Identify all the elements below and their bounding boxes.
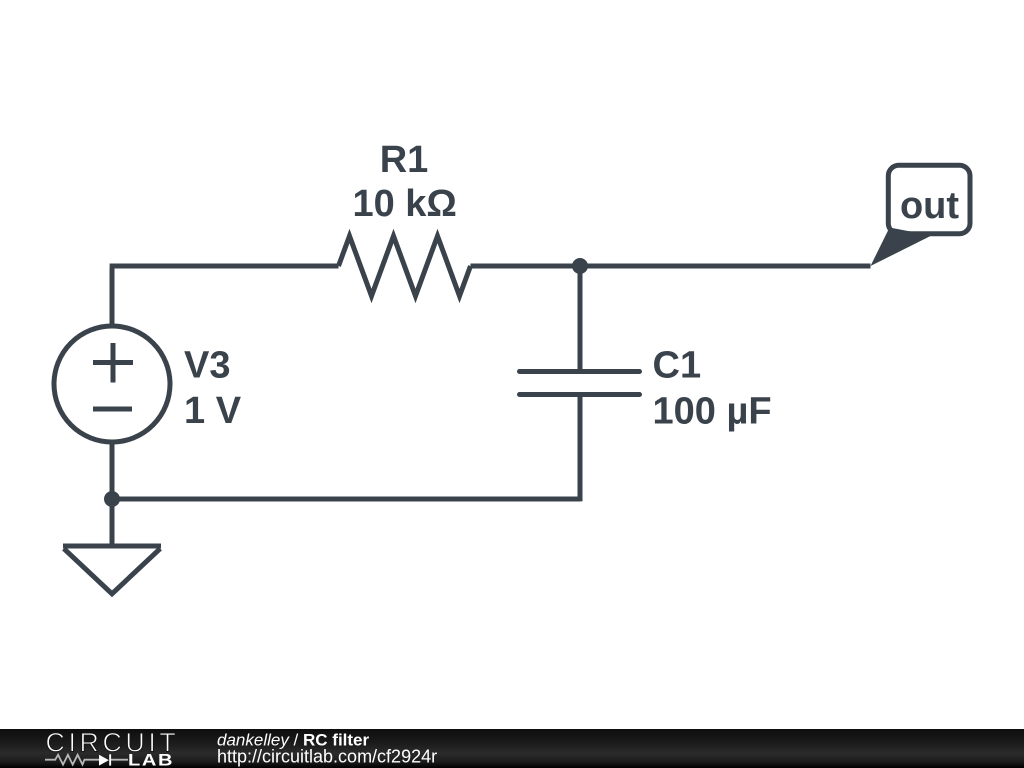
svg-text:C1: C1 [653, 345, 702, 387]
svg-text:R1: R1 [380, 139, 429, 181]
svg-text:V3: V3 [184, 345, 230, 387]
svg-text:100 µF: 100 µF [653, 391, 772, 433]
svg-text:1 V: 1 V [184, 390, 242, 432]
svg-text:10 kΩ: 10 kΩ [352, 183, 456, 225]
svg-text:out: out [900, 185, 959, 227]
svg-text:LAB: LAB [128, 750, 174, 768]
svg-text:http://circuitlab.com/cf2924r: http://circuitlab.com/cf2924r [217, 747, 437, 767]
